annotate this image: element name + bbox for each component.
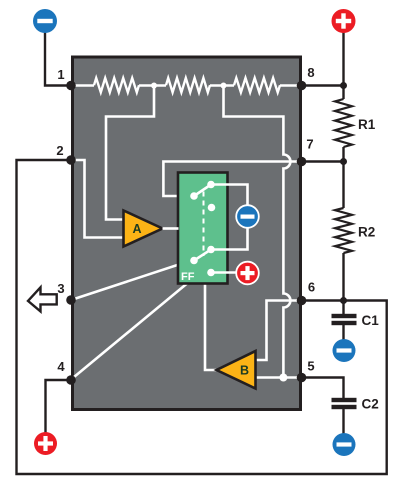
minus supply terminal under C2: [333, 433, 356, 456]
wire: left/bottom/right feedback loop (pin2 to pin6): [17, 160, 387, 474]
wire: C1 to minus terminal: [342, 325, 344, 345]
pin 7 dot: [297, 157, 307, 167]
node rail pin8 junction: [340, 82, 347, 89]
capacitor C2: [332, 398, 357, 402]
svg-text:B: B: [240, 364, 249, 378]
FF bottom switch arm: [194, 250, 211, 261]
node rail pin7 junction: [340, 158, 347, 165]
pin 3 dot: [66, 295, 76, 305]
pin 8 dot: [297, 81, 307, 91]
pin 1 dot: [66, 81, 76, 91]
resistor divider upper: [94, 78, 139, 92]
svg-text:FF: FF: [181, 271, 195, 283]
svg-text:5: 5: [307, 359, 314, 374]
svg-text:A: A: [132, 222, 141, 236]
wire: R1 to R2 through pin7 node: [342, 147, 344, 208]
FF bottom switch upper contact dot: [207, 246, 215, 254]
svg-text:R2: R2: [358, 225, 375, 240]
wire: C2 to minus terminal: [342, 409, 344, 438]
FF switch linkage dashed: [203, 192, 205, 257]
resistor R2: [335, 208, 352, 253]
FF top switch arm: [194, 185, 211, 197]
wire: reset diagonal pin4 to FF: [71, 284, 187, 380]
pin 6 dot: [297, 296, 307, 306]
wire: comparator B output to FF bottom: [205, 284, 217, 371]
wire: R2 down to pin6 node and C1: [342, 253, 344, 314]
resistor R1: [335, 99, 352, 147]
minus supply terminal top-left: [33, 9, 57, 33]
svg-text:4: 4: [57, 359, 65, 374]
node 2/3Vcc junction dot: [221, 83, 227, 89]
internal voltage divider: wire pin1 to chain: [71, 84, 94, 87]
flip-flop FF block: [178, 173, 228, 284]
svg-text:C2: C2: [362, 397, 379, 412]
svg-text:8: 8: [307, 65, 314, 80]
svg-text:3: 3: [57, 281, 64, 296]
pin 4 dot: [66, 375, 76, 385]
resistor divider middle: [166, 78, 210, 92]
FF top switch upper contact dot: [207, 181, 215, 189]
resistor divider lower: [234, 78, 280, 92]
wire: pin4 to plus terminal: [46, 380, 72, 438]
node 1/3Vcc junction dot: [151, 83, 157, 89]
FF bottom switch lower contact dot: [207, 269, 215, 277]
pin 5 dot: [297, 373, 307, 383]
svg-text:2: 2: [56, 143, 63, 158]
wire: pin5 to comparator B lower input: [256, 376, 302, 379]
svg-text:C1: C1: [362, 313, 380, 328]
wire to node 2/3Vcc: [210, 84, 234, 87]
wire: FF lower throw to plus supply: [211, 271, 248, 274]
wire: 2/3Vcc node down to pin5 with crossover hops: [224, 86, 291, 378]
wire: pin7 to rail: [302, 160, 344, 162]
wire: FF switch throws to minus supply: [211, 185, 248, 250]
wire to node 1/3Vcc: [139, 84, 166, 87]
svg-text:6: 6: [308, 280, 315, 295]
op-amp comparator B: [217, 351, 256, 389]
capacitor C1: [332, 314, 357, 318]
output arrow pin3: [28, 287, 57, 311]
FF top switch lower contact dot: [208, 204, 216, 212]
node pin5 / 2/3Vcc junction dot: [279, 374, 287, 382]
wire: comparator A output to FF: [163, 227, 179, 230]
internal plus supply symbol: [236, 262, 259, 285]
plus supply terminal bottom-left: [34, 432, 57, 455]
wire: plus terminal down supply rail to pin8 node: [342, 30, 344, 99]
wire: pin5 to C2: [302, 378, 344, 399]
IC body 555: [73, 57, 301, 410]
node rail pin6 junction: [340, 297, 347, 304]
svg-text:1: 1: [57, 67, 64, 82]
svg-text:R1: R1: [358, 117, 376, 132]
plus supply terminal top-right: [332, 9, 356, 33]
svg-text:7: 7: [306, 137, 313, 152]
internal minus supply symbol: [236, 205, 259, 228]
wire: pin7 to FF top switch pole: [163, 162, 301, 197]
wire chain to pin8: [280, 84, 302, 87]
FF top switch pole dot: [190, 192, 198, 200]
wire: 1/3Vcc node to comparator A reference input: [106, 86, 154, 220]
op-amp comparator A: [124, 211, 163, 247]
FF bottom switch pole dot: [190, 257, 198, 265]
wire: output diagonal FF to pin3: [71, 260, 194, 301]
wire: pin6 to comparator B upper input: [256, 301, 302, 361]
wire: pin2 to comparator A input: [71, 160, 124, 238]
minus supply terminal under C1: [333, 339, 356, 362]
wire: pin8 to rail: [302, 84, 344, 86]
pin 2 dot: [66, 155, 76, 165]
wire: minus terminal to pin1: [45, 30, 71, 86]
